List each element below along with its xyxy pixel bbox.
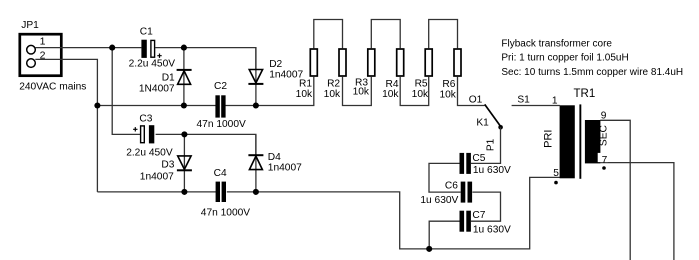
junction C1/D1/D2 top xyxy=(181,45,187,51)
svg-text:47n 1000V: 47n 1000V xyxy=(201,207,250,218)
diode D1 (cathode up) xyxy=(177,70,192,84)
wire diode D3 branch xyxy=(183,134,185,192)
TR1 primary phase dot xyxy=(554,181,558,185)
wire R5-R6 top bridge xyxy=(429,20,458,49)
wire R2-R3 bottom link xyxy=(343,77,372,106)
svg-text:5: 5 xyxy=(553,168,559,179)
svg-text:JP1: JP1 xyxy=(21,20,39,31)
svg-text:D3: D3 xyxy=(161,160,174,171)
svg-text:2.2u 450V: 2.2u 450V xyxy=(126,148,173,159)
junction D1 bottom on neutral rail xyxy=(181,102,187,108)
capacitor C3 (polarized) xyxy=(141,125,155,143)
svg-text:C2: C2 xyxy=(214,81,227,92)
wire P1 down to C5 xyxy=(471,127,501,163)
svg-text:PRI: PRI xyxy=(543,130,555,148)
junction node A (C1/C3 feed) xyxy=(109,45,115,51)
TR1 pin7 label knockout xyxy=(598,153,608,162)
wire diode D2 branch xyxy=(255,48,257,106)
svg-text:1n4007: 1n4007 xyxy=(140,171,174,182)
wire C7 left to bottom rail xyxy=(429,221,459,249)
junction D3 bottom on bottom rail xyxy=(181,189,187,195)
resistor R4 xyxy=(397,49,404,76)
svg-text:10k: 10k xyxy=(324,89,341,100)
diode D2 (cathode down) xyxy=(248,70,263,84)
junction D4 bottom on bottom rail xyxy=(253,189,259,195)
svg-text:7: 7 xyxy=(602,155,608,166)
svg-text:C6: C6 xyxy=(445,181,458,192)
transformer TR1 secondary winding xyxy=(585,120,601,163)
svg-text:C5: C5 xyxy=(472,153,485,164)
svg-text:1n4007: 1n4007 xyxy=(268,162,302,173)
wire R6 to switch contact O1 xyxy=(458,77,485,106)
svg-text:10k: 10k xyxy=(412,89,429,100)
wire net S1 to TR1 pin 1 xyxy=(512,105,560,107)
svg-text:Flyback transformer core: Flyback transformer core xyxy=(501,39,612,50)
connector JP1 xyxy=(20,34,62,75)
svg-text:C3: C3 xyxy=(139,113,152,124)
svg-text:S1: S1 xyxy=(517,94,530,105)
wire C6 right to C7 right xyxy=(471,192,501,221)
wire node A down to C3 xyxy=(112,48,140,135)
resistor R6 xyxy=(454,49,461,76)
switch K1 blade xyxy=(485,104,501,126)
svg-text:Pri: 1 turn copper foil 1.05uH: Pri: 1 turn copper foil 1.05uH xyxy=(501,53,628,64)
svg-text:1u 630V: 1u 630V xyxy=(420,195,458,206)
svg-text:SEC: SEC xyxy=(599,125,610,146)
svg-text:P1: P1 xyxy=(485,138,496,151)
wire R4-R5 bottom link xyxy=(400,77,429,106)
resistor R1 xyxy=(310,49,317,76)
svg-text:K1: K1 xyxy=(476,117,489,128)
resistor R5 xyxy=(425,49,432,76)
svg-text:47n 1000V: 47n 1000V xyxy=(197,119,246,130)
transformer core xyxy=(579,104,581,178)
svg-text:R2: R2 xyxy=(327,79,340,90)
svg-text:1: 1 xyxy=(40,36,46,48)
junction C3/D3/D4 row xyxy=(181,131,187,137)
svg-text:O1: O1 xyxy=(469,95,483,106)
wire C1 right to D2 top xyxy=(155,48,256,70)
svg-text:C1: C1 xyxy=(140,27,153,38)
svg-text:R5: R5 xyxy=(415,79,428,90)
svg-text:1u 630V: 1u 630V xyxy=(473,165,511,176)
junction D2 bottom on neutral rail xyxy=(253,102,259,108)
wire diode D4 branch xyxy=(255,135,257,192)
capacitor C7 xyxy=(460,211,471,232)
svg-text:TR1: TR1 xyxy=(574,88,596,100)
wire TR1 pin 9 output xyxy=(600,120,630,260)
wire C2 to R1 bottom xyxy=(225,77,314,106)
diode D3 (cathode down) xyxy=(177,156,192,170)
svg-text:C4: C4 xyxy=(214,168,227,179)
resistor R2 xyxy=(339,49,346,76)
svg-text:C7: C7 xyxy=(472,210,485,221)
svg-text:10k: 10k xyxy=(353,87,370,98)
svg-text:D1: D1 xyxy=(162,73,175,84)
capacitor C2 xyxy=(215,95,225,117)
svg-text:R1: R1 xyxy=(299,78,312,89)
junction C7 to bottom rail xyxy=(426,246,432,252)
svg-text:10k: 10k xyxy=(296,89,313,100)
resistor R3 xyxy=(368,49,375,76)
wire diode D1 branch xyxy=(183,48,185,106)
junction neutral at JP1 branch xyxy=(94,102,100,108)
svg-text:2.2u 450V: 2.2u 450V xyxy=(129,59,176,70)
svg-text:Sec: 10 turns 1.5mm copper wir: Sec: 10 turns 1.5mm copper wire 81.4uH xyxy=(501,67,683,78)
C1 plus sign xyxy=(157,54,161,58)
C3 plus sign xyxy=(133,127,137,131)
wire C3 right to D4 top xyxy=(156,134,256,155)
wire R3-R4 top bridge xyxy=(371,20,400,49)
svg-text:10k: 10k xyxy=(382,89,399,100)
svg-text:1: 1 xyxy=(552,95,558,106)
svg-text:10k: 10k xyxy=(439,89,456,100)
capacitor C4 xyxy=(216,182,226,202)
wire neutral rail to C2 xyxy=(97,105,215,107)
svg-text:1N4007: 1N4007 xyxy=(139,83,175,94)
wire TR1 pin 7 output xyxy=(600,163,674,260)
capacitor C6 xyxy=(461,182,472,203)
wire R1-R2 top bridge xyxy=(314,20,343,49)
wire C5 left to C6 left xyxy=(429,163,461,192)
switch pole dot P1 xyxy=(498,125,503,130)
svg-text:1u 630V: 1u 630V xyxy=(473,224,511,235)
svg-text:9: 9 xyxy=(601,110,607,121)
svg-text:D4: D4 xyxy=(268,152,281,163)
TR1 secondary phase dot xyxy=(602,166,606,170)
capacitor C5 xyxy=(460,153,471,174)
wire JP1 pin1 to C1 (phase top) xyxy=(35,47,141,49)
wire bottom rail to C4 xyxy=(97,191,216,193)
transformer TR1 primary winding xyxy=(560,105,575,178)
svg-text:240VAC mains: 240VAC mains xyxy=(19,81,86,92)
diode D4 (cathode up) xyxy=(248,155,263,169)
wire JP1 pin2 down xyxy=(35,59,97,192)
capacitor C1 (polarized) xyxy=(141,40,154,58)
wire C4 to TR1 pin 5 xyxy=(227,177,560,249)
